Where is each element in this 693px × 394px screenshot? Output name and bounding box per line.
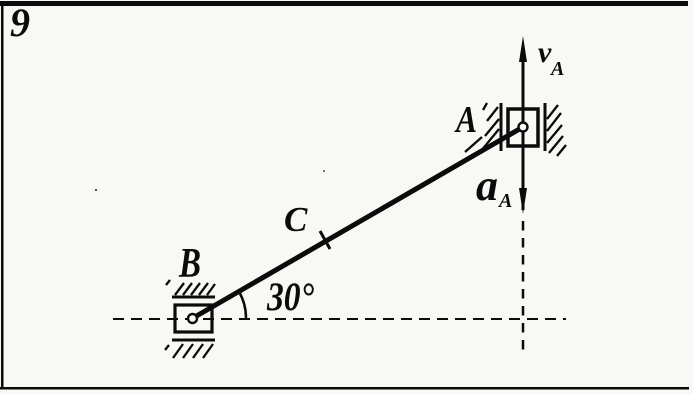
slider B bottom wall line (172, 339, 215, 342)
frame left border (1, 1, 4, 389)
rod AB (193, 127, 523, 318)
vertical guide shaft through A (arrow line) (522, 48, 525, 210)
slider B box (175, 305, 212, 332)
frame top border (0, 1, 688, 6)
tick mark at C on rod (320, 231, 330, 249)
speck near left middle (95, 189, 97, 191)
svg-text:A: A (454, 99, 477, 141)
slider B top wall hatching (166, 280, 215, 295)
svg-text:A: A (497, 190, 512, 212)
svg-text:v: v (538, 36, 552, 69)
angle arc 30deg (239, 292, 246, 319)
arrowhead down (a_A) (519, 188, 527, 214)
slider A right wall hatching (547, 105, 566, 156)
svg-text:C: C (284, 200, 308, 239)
slider A right wall line (544, 103, 547, 151)
dashed horizontal line through B (113, 318, 566, 320)
svg-text:B: B (178, 241, 201, 287)
speck above C (323, 170, 325, 172)
svg-text:a: a (476, 161, 498, 210)
svg-text:9: 9 (10, 0, 30, 45)
slider A left wall line (500, 103, 503, 151)
arrowhead up (v_A) (519, 36, 527, 62)
slider B bottom wall hatching (165, 344, 213, 358)
svg-text:A: A (549, 58, 564, 80)
pin joint B (188, 314, 197, 323)
slider A left wall hatching (465, 103, 499, 152)
slider B top wall line (172, 296, 215, 299)
dashed vertical line below A (522, 221, 525, 354)
slider A box (508, 109, 538, 146)
svg-text:30°: 30° (266, 274, 314, 319)
frame bottom border (0, 387, 689, 390)
pin joint A (519, 123, 528, 132)
